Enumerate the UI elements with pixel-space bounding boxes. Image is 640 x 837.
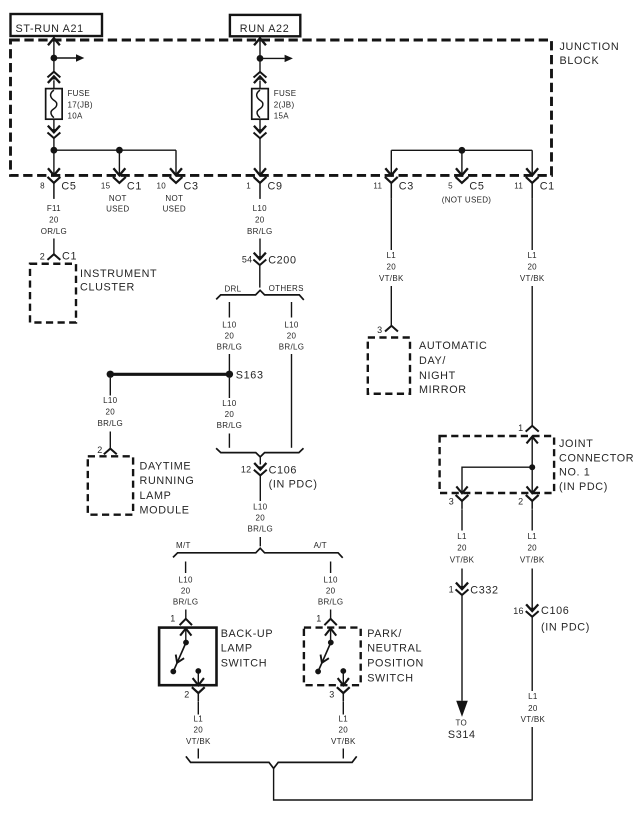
stub wire park/neutral to merge [342, 749, 344, 759]
wire merge down and right to C106 pin 16 wire [274, 727, 533, 800]
destination label TO S314 [448, 719, 476, 742]
svg-text:NOT: NOT [109, 194, 127, 203]
svg-text:FUSE: FUSE [274, 89, 297, 98]
svg-text:RUN A22: RUN A22 [240, 23, 290, 35]
svg-text:C1: C1 [62, 251, 77, 263]
svg-text:BR/LG: BR/LG [217, 421, 243, 430]
joint connector label [559, 438, 634, 493]
svg-text:20: 20 [457, 544, 467, 553]
svg-text:C5: C5 [469, 181, 484, 193]
joint connector internal entry arrow [527, 437, 537, 443]
back-up lamp switch pin 1 connector [170, 614, 191, 625]
fuse 17(JB) 10A [46, 89, 63, 120]
svg-text:OTHERS: OTHERS [269, 284, 304, 293]
svg-text:C1: C1 [127, 181, 142, 193]
svg-text:20: 20 [339, 726, 349, 735]
wire to park/neutral switch pin 1 [330, 610, 332, 619]
power source box ST-RUN A21 [11, 14, 103, 36]
svg-text:VT/BK: VT/BK [520, 556, 545, 565]
park/neutral position switch box [304, 628, 361, 686]
svg-text:JUNCTION: JUNCTION [560, 41, 620, 53]
svg-text:VT/BK: VT/BK [521, 715, 546, 724]
park/neutral switch exit arrow [338, 671, 348, 685]
svg-text:MODULE: MODULE [140, 505, 190, 517]
svg-text:AUTOMATIC: AUTOMATIC [419, 340, 487, 352]
svg-text:20: 20 [256, 514, 266, 523]
svg-text:L10: L10 [222, 321, 236, 330]
drop wire to C5 pin 5 [461, 150, 463, 175]
svg-text:1: 1 [170, 614, 175, 624]
svg-text:L1: L1 [339, 715, 349, 724]
svg-text:INSTRUMENT: INSTRUMENT [80, 268, 157, 280]
svg-text:BR/LG: BR/LG [318, 598, 344, 607]
svg-text:L1: L1 [457, 532, 467, 541]
svg-text:20: 20 [106, 408, 116, 417]
svg-text:(NOT USED): (NOT USED) [442, 196, 492, 205]
svg-text:11: 11 [373, 182, 382, 191]
svg-text:L10: L10 [253, 204, 267, 213]
svg-text:1: 1 [246, 182, 251, 191]
joint connector internal node dot [529, 464, 535, 470]
merge bracket into C106 [216, 448, 303, 457]
right bus inside junction block [391, 149, 532, 151]
svg-text:(IN PDC): (IN PDC) [559, 481, 608, 493]
wire label L10 20 BR/LG (C106 out) [248, 503, 274, 534]
joint connector internal exit arrow pin 3 [457, 487, 467, 493]
wire into fuse 2 [259, 81, 261, 89]
stub wire M/T branch [185, 562, 187, 574]
back-up lamp switch label [221, 628, 274, 670]
wire to back-up lamp switch pin 1 [185, 610, 187, 619]
wire from ST-RUN A21 into junction block [53, 37, 55, 72]
wire to DRL module pin 2 [109, 432, 111, 449]
daytime running lamp module box [88, 456, 133, 514]
svg-text:20: 20 [387, 263, 397, 272]
svg-text:C332: C332 [470, 584, 498, 596]
svg-text:L10: L10 [323, 576, 337, 585]
wire label L1 20 VT/BK (park/neutral out) [331, 715, 356, 747]
fuse 2 value label [274, 89, 297, 121]
wire label L10 20 BR/LG (below S163) [217, 399, 243, 430]
svg-text:PARK/: PARK/ [367, 628, 402, 640]
daytime running lamp module label [140, 460, 195, 516]
wire from park/neutral switch pin 3 [342, 701, 344, 714]
park/neutral switch blade [318, 643, 331, 672]
svg-text:20: 20 [255, 216, 265, 225]
fuse holder line-side connector (A22) [254, 72, 265, 82]
connector C5 pin 5 (junction block, not used) [442, 169, 492, 204]
park/neutral position switch label [367, 628, 424, 685]
stub wire back-up to merge [197, 749, 199, 759]
park/neutral switch pin 3 connector [329, 688, 349, 701]
wire C1 to joint connector gap2 [531, 286, 533, 425]
joint connector pin 1 connector [518, 423, 538, 433]
svg-text:20: 20 [527, 544, 537, 553]
svg-text:20: 20 [181, 587, 191, 596]
wire from back-up switch pin 2 [197, 701, 199, 714]
svg-text:C9: C9 [268, 181, 283, 193]
wire to C106 pin 16 [531, 569, 533, 611]
svg-text:2: 2 [518, 497, 523, 507]
wire merge to C106 pin 12 [259, 457, 261, 465]
svg-text:VT/BK: VT/BK [186, 737, 211, 746]
svg-text:16: 16 [513, 606, 523, 616]
svg-text:11: 11 [514, 182, 523, 191]
svg-text:L10: L10 [178, 576, 192, 585]
svg-text:20: 20 [326, 587, 336, 596]
svg-text:BLOCK: BLOCK [560, 55, 600, 67]
svg-text:L1: L1 [527, 532, 537, 541]
node dot on A21 feed [51, 55, 58, 62]
wire C3 to mirror gap2 [390, 286, 392, 325]
node dot right bus at C5 pin 5 [459, 147, 466, 154]
instrument cluster label [80, 268, 157, 294]
svg-text:2(JB): 2(JB) [274, 100, 295, 109]
back-up switch blade end contact [170, 669, 176, 675]
svg-text:F11: F11 [47, 204, 61, 213]
svg-text:5: 5 [448, 182, 453, 191]
svg-text:3: 3 [377, 325, 382, 335]
wire label L10 20 BR/LG (DRL module) [98, 396, 124, 428]
svg-text:OR/LG: OR/LG [41, 227, 67, 236]
wire label L10 20 BR/LG (C9 feed) [247, 204, 273, 236]
wire to C332 [461, 569, 463, 589]
svg-text:LAMP: LAMP [140, 490, 172, 502]
junction block label [560, 41, 620, 67]
svg-text:15: 15 [101, 182, 111, 191]
wire label L1 20 VT/BK (C106-16 out) [521, 692, 546, 724]
svg-text:LAMP: LAMP [221, 643, 253, 655]
stub wire DRL branch [228, 302, 230, 318]
wire label L10 20 BR/LG (M/T) [173, 576, 199, 607]
split bracket DRL/OTHERS [216, 290, 304, 300]
park/neutral switch blade end contact [315, 669, 321, 675]
joint connector internal exit arrow pin 2 [527, 487, 537, 493]
svg-text:NEUTRAL: NEUTRAL [367, 643, 422, 655]
arrow up at junction block top border (A22 feed) [255, 38, 265, 44]
fuse holder load-side connector (A22) [254, 127, 265, 139]
arrow up at junction block top border (A21 feed) [49, 38, 59, 44]
automatic day/night mirror box [368, 338, 410, 394]
svg-text:20: 20 [194, 726, 204, 735]
svg-text:BACK-UP: BACK-UP [221, 628, 274, 640]
wire label L10 20 BR/LG (A/T) [318, 576, 344, 607]
wire C9 to C200 [259, 239, 261, 259]
fuse 17 value label [68, 89, 93, 121]
connector C3 pin 10 (junction block, not used) [157, 169, 199, 213]
svg-text:ST-RUN A21: ST-RUN A21 [16, 23, 84, 35]
svg-text:20: 20 [49, 216, 59, 225]
svg-text:C1: C1 [540, 181, 555, 193]
stub wire OTHERS branch [291, 302, 293, 318]
merge bracket back-up and park/neutral [186, 756, 357, 768]
node dot bus at C1 pin 15 drop [116, 147, 123, 154]
node dot on A22 feed [257, 55, 264, 62]
svg-text:1: 1 [449, 584, 454, 594]
svg-text:M/T: M/T [176, 541, 191, 550]
svg-text:L10: L10 [253, 503, 267, 512]
back-up lamp switch box [159, 628, 216, 686]
park/neutral switch output contact [340, 668, 346, 674]
svg-text:1: 1 [316, 614, 321, 624]
svg-text:C106: C106 [541, 605, 569, 617]
svg-text:BR/LG: BR/LG [279, 343, 305, 352]
svg-text:20: 20 [528, 704, 538, 713]
wire label L1 20 VT/BK (to C106-16) [520, 532, 545, 565]
wire from RUN A22 into junction block [259, 37, 261, 72]
svg-text:BR/LG: BR/LG [217, 343, 243, 352]
svg-text:BR/LG: BR/LG [98, 419, 124, 428]
joint connector pin 2 connector [518, 496, 538, 509]
wire DRL to merge bracket [228, 434, 230, 448]
svg-text:10: 10 [157, 182, 167, 191]
svg-text:15A: 15A [274, 111, 289, 120]
wire label L1 20 VT/BK (back-up out) [186, 715, 211, 747]
drop wire to C3 pin 10 [175, 150, 177, 175]
back-up lamp switch pin 2 connector [184, 688, 204, 701]
wire label L10 20 BR/LG (OTHERS) [279, 321, 305, 352]
wire below fuse 2 [259, 119, 261, 132]
arrow to S314 [456, 701, 468, 717]
svg-text:NO. 1: NO. 1 [559, 466, 590, 478]
drop wire to C1 pin 11 [531, 150, 533, 175]
joint connector pin 3 connector [449, 496, 468, 509]
svg-text:USED: USED [163, 205, 186, 214]
wire C200 to DRL/OTHERS split [259, 266, 261, 288]
wire C106-16 down [531, 617, 533, 691]
svg-text:VT/BK: VT/BK [331, 737, 356, 746]
svg-text:L1: L1 [387, 251, 397, 260]
branch arrow right from A22 feed [260, 55, 293, 62]
wire label L10 20 BR/LG (DRL) [217, 321, 243, 352]
drop wire to C1 pin 15 [118, 150, 120, 175]
svg-text:SWITCH: SWITCH [221, 658, 267, 670]
branch label M/T [176, 541, 191, 550]
svg-text:8: 8 [40, 182, 45, 191]
back-up switch output contact [195, 668, 201, 674]
svg-text:RUNNING: RUNNING [140, 475, 195, 487]
stub wire A/T branch [330, 562, 332, 574]
connector C5 pin 8 (junction block) [40, 169, 76, 199]
connector C3 pin 11 (junction block) [373, 169, 414, 199]
wire joint connector pin 3 down [461, 509, 463, 530]
power source box RUN A22 [230, 15, 300, 36]
svg-text:20: 20 [287, 332, 297, 341]
svg-text:NIGHT: NIGHT [419, 370, 456, 382]
connector C106 pin 12 (in PDC) [241, 464, 318, 491]
branch arrow right from A21 feed [54, 54, 84, 61]
fuse holder line-side connector (A21) [48, 72, 59, 82]
park/neutral switch pin 1 connector [316, 614, 336, 625]
instrument cluster box [30, 264, 76, 323]
connector C1 pin 15 (junction block, not used) [101, 169, 142, 213]
svg-text:CLUSTER: CLUSTER [80, 282, 135, 294]
branch label DRL [224, 285, 241, 294]
back-up switch common contact [183, 640, 189, 646]
wire C1 to joint connector gap1 [531, 199, 533, 250]
svg-text:JOINT: JOINT [559, 438, 593, 450]
instrument cluster pin 2 connector [40, 251, 77, 263]
svg-text:NOT: NOT [165, 194, 183, 203]
node dot bus at A21 wire [51, 147, 58, 154]
svg-text:A/T: A/T [314, 541, 327, 550]
wire label L1 20 VT/BK (mirror) [379, 251, 404, 283]
connector C200 pin 54 [242, 254, 297, 267]
wire S163 to daytime running lamp module [109, 378, 111, 396]
wire C106 down [259, 476, 261, 501]
wire label L1 20 VT/BK (to C332) [450, 532, 475, 565]
splice S163 [107, 369, 264, 381]
branch label A/T [314, 541, 327, 550]
wire from fuse 2 to C9 pin 1 [259, 138, 261, 175]
joint connector no.1 box [440, 436, 554, 493]
back-up switch exit arrow [193, 671, 203, 685]
wire below fuse 17 [53, 119, 55, 132]
svg-text:3: 3 [329, 690, 334, 700]
daytime running lamp module pin 2 connector [97, 445, 116, 455]
svg-text:54: 54 [242, 254, 252, 264]
svg-text:CONNECTOR: CONNECTOR [559, 453, 634, 465]
wire C3 to mirror gap1 [390, 199, 392, 250]
wire C332 to S314 [461, 596, 463, 701]
svg-text:L10: L10 [222, 399, 236, 408]
svg-text:C200: C200 [268, 254, 296, 266]
svg-text:12: 12 [241, 465, 251, 475]
svg-text:L1: L1 [194, 715, 204, 724]
wire to M/T A/T split [259, 537, 261, 546]
svg-text:VT/BK: VT/BK [450, 556, 475, 565]
wire C5 to instrument cluster [53, 239, 55, 254]
joint connector internal branch wire [462, 467, 532, 493]
left bus inside junction block [54, 149, 176, 151]
junction block dashed border [11, 40, 552, 175]
svg-text:DAYTIME: DAYTIME [140, 460, 192, 472]
svg-text:2: 2 [184, 690, 189, 700]
svg-text:1: 1 [518, 423, 523, 433]
svg-text:10A: 10A [68, 111, 83, 120]
wire joint connector pin 2 down [531, 509, 533, 530]
park/neutral switch common contact [328, 640, 334, 646]
wire from fuse 17 to bus [53, 138, 55, 175]
svg-text:S314: S314 [448, 729, 476, 741]
svg-text:17(JB): 17(JB) [68, 100, 93, 109]
connector C9 pin 1 (junction block) [246, 169, 282, 199]
joint connector internal wire [531, 437, 533, 493]
svg-text:DAY/: DAY/ [419, 355, 446, 367]
svg-text:C5: C5 [61, 181, 76, 193]
svg-text:L1: L1 [528, 692, 538, 701]
svg-text:MIRROR: MIRROR [419, 384, 467, 396]
split bracket M/T A/T [173, 548, 343, 558]
svg-text:POSITION: POSITION [367, 658, 424, 670]
svg-text:SWITCH: SWITCH [367, 673, 413, 685]
svg-text:(IN PDC): (IN PDC) [541, 622, 590, 634]
park/neutral switch entry arrow [326, 628, 336, 642]
wire label F11 20 OR/LG [41, 204, 67, 236]
svg-text:FUSE: FUSE [68, 89, 91, 98]
automatic day/night mirror pin 3 connector [377, 325, 397, 335]
drop wire to C3 pin 11 [390, 150, 392, 175]
fuse holder load-side connector (A21) [48, 127, 59, 139]
svg-text:BR/LG: BR/LG [247, 227, 273, 236]
svg-text:3: 3 [449, 497, 454, 507]
svg-text:DRL: DRL [224, 285, 241, 294]
svg-text:BR/LG: BR/LG [248, 525, 274, 534]
svg-text:VT/BK: VT/BK [520, 274, 545, 283]
svg-text:20: 20 [225, 410, 235, 419]
connector C332 pin 1 [449, 583, 499, 596]
svg-text:20: 20 [527, 263, 537, 272]
svg-text:USED: USED [106, 205, 129, 214]
wire DRL to splice S163 [228, 354, 230, 371]
wire into fuse 17 [53, 80, 55, 88]
svg-text:20: 20 [225, 332, 235, 341]
branch label OTHERS [269, 284, 304, 293]
connector C106 pin 16 (in PDC) [513, 605, 590, 634]
svg-text:L10: L10 [284, 321, 298, 330]
connector C1 pin 11 (junction block) [514, 169, 555, 199]
svg-text:C3: C3 [399, 181, 414, 193]
back-up switch entry arrow [181, 628, 191, 642]
wire S163 down (DRL) [228, 378, 230, 398]
svg-text:L10: L10 [103, 396, 117, 405]
automatic day/night mirror label [419, 340, 487, 396]
svg-text:S163: S163 [236, 369, 264, 381]
svg-text:C106: C106 [269, 465, 297, 477]
svg-text:(IN PDC): (IN PDC) [269, 479, 318, 491]
svg-text:2: 2 [40, 252, 45, 262]
svg-text:C3: C3 [184, 181, 199, 193]
fuse 2(JB) 15A [252, 89, 269, 120]
svg-text:VT/BK: VT/BK [379, 274, 404, 283]
back-up switch blade [173, 643, 186, 672]
wire label L1 20 VT/BK (C1 to joint connector) [520, 251, 545, 283]
svg-text:BR/LG: BR/LG [173, 598, 199, 607]
svg-text:TO: TO [456, 719, 468, 728]
wire OTHERS to merge bracket [291, 354, 293, 448]
svg-text:2: 2 [97, 445, 102, 455]
svg-text:L1: L1 [527, 251, 537, 260]
